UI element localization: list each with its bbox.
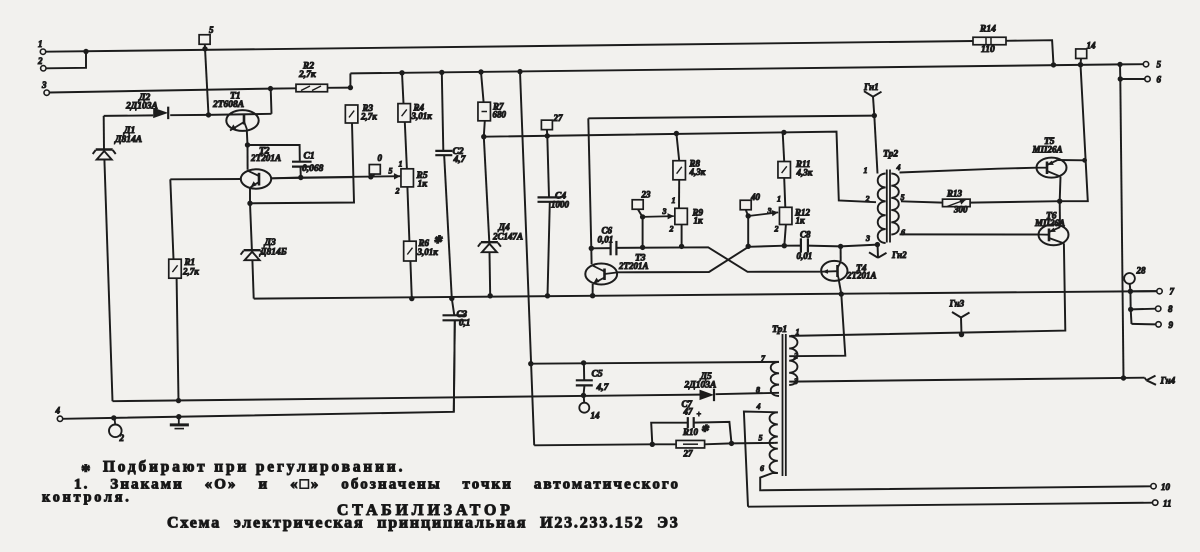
svg-text:47: 47: [683, 407, 694, 417]
wire: [248, 145, 300, 161]
svg-text:1к: 1к: [796, 216, 806, 226]
svg-text:2Д103А: 2Д103А: [684, 381, 717, 391]
node junction: [202, 46, 207, 51]
transistor T2: [241, 169, 271, 188]
wire: [520, 72, 534, 446]
svg-text:2: 2: [37, 56, 43, 66]
wire: [170, 179, 173, 259]
wire: [783, 133, 785, 162]
svg-text:2,7к: 2,7к: [298, 70, 317, 80]
svg-text:Подбирают при регулировании.: Подбирают при регулировании.: [103, 459, 405, 476]
svg-text:C5: C5: [592, 370, 603, 380]
node junction: [176, 398, 181, 403]
zener D1: [96, 148, 113, 150]
node junction: [1118, 76, 1123, 81]
svg-text:4,3к: 4,3к: [796, 168, 813, 178]
svg-text:6: 6: [1157, 75, 1162, 85]
transformer Tr2 winding 4-5-6: [891, 174, 899, 235]
svg-text:1к: 1к: [694, 216, 704, 226]
resistor R7: [478, 102, 491, 121]
wire: [840, 246, 842, 261]
node junction: [872, 113, 877, 118]
resistor R3: [345, 105, 358, 123]
wire: [249, 188, 251, 204]
wire: [873, 97, 874, 116]
resistor R2: [296, 84, 328, 92]
wire: [534, 444, 652, 445]
wire: [839, 281, 841, 294]
transformer Tr1 winding 4-5-6: [770, 412, 778, 473]
node junction: [528, 361, 533, 366]
wire: [104, 160, 112, 402]
svg-text:5: 5: [1157, 60, 1162, 70]
wire: [546, 130, 548, 136]
node junction: [298, 175, 303, 180]
wire: [63, 321, 455, 419]
wire: [643, 215, 674, 218]
wire: [748, 503, 1153, 507]
svg-text:28: 28: [1136, 266, 1147, 276]
transformer Tr1 winding 7-8: [771, 362, 779, 396]
wire: [349, 73, 351, 87]
wire: [328, 87, 351, 89]
wire: [1080, 59, 1083, 65]
svg-text:4: 4: [55, 406, 61, 416]
transistor T4: [821, 261, 847, 281]
capacitor C6: [609, 241, 611, 255]
node 40: [740, 200, 751, 210]
svg-text:4,3к: 4,3к: [689, 167, 706, 177]
transistor T3: [585, 264, 617, 285]
svg-text:2Т201А: 2Т201А: [250, 153, 281, 163]
svg-text:1: 1: [796, 328, 800, 337]
wire: [548, 202, 550, 295]
node junction: [640, 245, 645, 250]
wire: [1129, 284, 1132, 292]
wire: [1129, 291, 1131, 309]
capacitor C1: [292, 161, 312, 163]
wire: [350, 64, 1120, 73]
node 28: [1124, 273, 1135, 284]
wire: [209, 114, 272, 115]
wire: [103, 116, 105, 150]
node junction: [674, 131, 679, 136]
svg-text:Тр2: Тр2: [883, 150, 898, 160]
wire: [254, 291, 1160, 299]
svg-text:0,1: 0,1: [459, 318, 470, 328]
wire: [784, 178, 785, 207]
wire: [746, 210, 748, 216]
wire: [531, 362, 779, 364]
wire: [1119, 64, 1121, 79]
terminal 11: [1153, 500, 1158, 505]
svg-text:Гн1: Гн1: [863, 82, 879, 92]
svg-text:✱: ✱: [701, 424, 710, 434]
svg-text:2Т201А: 2Т201А: [618, 261, 649, 271]
wire: [1006, 40, 1054, 65]
node junction: [1121, 375, 1126, 380]
node junction: [746, 244, 751, 249]
wire: [900, 233, 1039, 235]
capacitor C3: [443, 314, 467, 316]
wire: [760, 473, 1151, 490]
wire: [481, 72, 484, 102]
wire: [588, 116, 874, 119]
svg-text:680: 680: [493, 110, 507, 120]
resistor R11: [778, 162, 791, 178]
svg-text:2: 2: [774, 225, 779, 234]
svg-text:2Т201А: 2Т201А: [846, 271, 877, 281]
capacitor C4: [538, 196, 562, 198]
wire: [405, 122, 407, 169]
wire: [705, 442, 732, 445]
transformer Tr1 core: [782, 334, 784, 476]
node junction: [650, 442, 655, 447]
wire: [271, 177, 301, 180]
node 23: [632, 200, 643, 210]
wire: [960, 318, 963, 335]
wire: [444, 156, 452, 299]
zener D4: [481, 241, 498, 243]
wire: [46, 52, 86, 69]
node junction: [1117, 62, 1122, 67]
svg-text:40: 40: [750, 192, 761, 202]
wire: [716, 393, 780, 394]
terminal 8: [1156, 306, 1161, 311]
svg-text:Гн2: Гн2: [891, 250, 907, 260]
transistor T1: [226, 110, 258, 131]
svg-text:1: 1: [864, 166, 868, 175]
svg-text:0,068: 0,068: [302, 164, 324, 174]
wire: [617, 246, 801, 273]
resistor R14: [973, 37, 1006, 45]
node junction: [1057, 199, 1062, 204]
node junction: [640, 214, 645, 219]
svg-text:0,01: 0,01: [598, 235, 614, 245]
svg-text:300: 300: [953, 205, 968, 215]
svg-text:МП26А: МП26А: [1032, 145, 1063, 155]
svg-text:1. Знаками «О» и «□» обозначен: 1. Знаками «О» и «□» обозначены точки ав…: [74, 477, 680, 493]
svg-text:C1: C1: [304, 152, 315, 162]
wire: [791, 378, 1145, 382]
node junction: [439, 70, 444, 75]
svg-text:2,7к: 2,7к: [182, 267, 199, 277]
transformer Tr2 winding 1-2-3: [878, 174, 886, 244]
node junction: [1128, 289, 1133, 294]
node junction: [399, 70, 404, 75]
wire: [642, 217, 644, 248]
svg-text:4,7: 4,7: [453, 155, 467, 165]
wire: [651, 423, 688, 445]
wire: [874, 116, 877, 174]
terminal 4: [57, 416, 62, 421]
svg-text:2: 2: [865, 195, 870, 204]
terminal 5: [1143, 61, 1148, 66]
wire: [271, 87, 297, 89]
pot R5: [401, 169, 414, 187]
svg-text:Схема электрическая принципиал: Схема электрическая принципиальная И23.2…: [167, 515, 680, 532]
node junction: [679, 244, 684, 249]
node junction: [517, 69, 522, 74]
node junction: [1128, 307, 1133, 312]
wire: [1131, 308, 1156, 311]
svg-text:Гн3: Гн3: [949, 299, 965, 309]
wire: [652, 443, 676, 445]
wire: [484, 132, 876, 203]
node junction: [111, 415, 116, 420]
node junction: [409, 296, 414, 301]
wire: [1120, 78, 1145, 80]
wire: [177, 278, 179, 400]
svg-text:4: 4: [756, 402, 761, 411]
wire: [1059, 201, 1061, 227]
node 5: [199, 35, 210, 45]
node junction: [245, 142, 250, 147]
svg-text:R13: R13: [946, 189, 963, 199]
wire: [616, 247, 820, 271]
svg-text:1: 1: [672, 196, 676, 205]
node junction: [581, 360, 586, 365]
wire: [170, 178, 241, 180]
capacitor C7: [687, 417, 689, 428]
wire: [900, 168, 1037, 173]
svg-text:R14: R14: [979, 25, 996, 35]
resistor R13: [943, 199, 971, 207]
wire: [247, 145, 249, 170]
wire: [590, 248, 592, 264]
wire: [252, 260, 253, 298]
wire: [1058, 159, 1085, 161]
svg-text:6: 6: [901, 228, 905, 237]
wire: [583, 363, 585, 380]
svg-text:контроля.: контроля.: [42, 490, 132, 506]
terminal 9: [1156, 322, 1161, 327]
wire: [747, 216, 749, 246]
svg-text:14: 14: [591, 411, 601, 421]
svg-text:2Т608А: 2Т608А: [212, 100, 244, 110]
node junction: [368, 174, 373, 179]
wire: [1059, 177, 1062, 202]
node junction: [729, 441, 734, 446]
wire: [638, 209, 642, 216]
svg-text:110: 110: [981, 45, 995, 55]
node junction: [1082, 158, 1087, 163]
svg-text:2: 2: [395, 187, 400, 196]
svg-text:✱: ✱: [434, 235, 444, 246]
svg-text:2: 2: [119, 433, 125, 443]
diode D2: [153, 108, 168, 119]
wire: [748, 212, 778, 216]
node junction: [782, 243, 787, 248]
node junction: [838, 244, 843, 249]
node junction: [348, 85, 353, 90]
svg-text:4,7: 4,7: [596, 383, 610, 393]
svg-text:1: 1: [777, 195, 781, 204]
svg-text:3: 3: [865, 234, 870, 243]
svg-text:3: 3: [41, 80, 47, 90]
node junction: [268, 86, 273, 91]
pot R9: [675, 208, 688, 224]
wire: [452, 299, 454, 315]
svg-text:Д3: Д3: [264, 238, 276, 248]
node 2: [114, 418, 117, 425]
node junction: [449, 296, 454, 301]
node 27: [541, 120, 552, 129]
transistor T5: [1037, 158, 1067, 178]
resistor R6: [404, 241, 417, 261]
wire: [1120, 63, 1143, 65]
capacitor C5: [576, 379, 593, 381]
wire: [1120, 79, 1123, 378]
svg-text:3: 3: [662, 207, 667, 216]
resistor R4: [398, 104, 411, 122]
jack Gn3: [952, 312, 961, 318]
transformer Tr2 core: [886, 170, 888, 243]
node junction: [1078, 62, 1083, 67]
jack Gn4: [1145, 378, 1147, 381]
svg-text:4: 4: [896, 163, 901, 172]
svg-text:1000: 1000: [551, 200, 570, 210]
svg-text:2Д103А: 2Д103А: [125, 102, 158, 112]
wire: [46, 41, 973, 52]
wire: [588, 118, 591, 248]
wire: [877, 243, 880, 258]
svg-text:3,01к: 3,01к: [411, 111, 433, 121]
wire: [49, 89, 270, 93]
svg-text:11: 11: [1163, 499, 1172, 509]
svg-text:27: 27: [553, 113, 564, 123]
wire: [678, 180, 680, 209]
wire: [1130, 309, 1133, 324]
wire: [784, 225, 786, 246]
svg-text:7: 7: [1170, 287, 1175, 297]
node junction: [581, 393, 586, 398]
svg-text:5: 5: [759, 434, 763, 443]
wire: [1130, 290, 1156, 292]
wire: [402, 73, 404, 104]
wire: [104, 114, 154, 117]
svg-text:1к: 1к: [418, 180, 429, 190]
terminal 6: [1145, 76, 1150, 81]
terminal 1: [40, 49, 45, 54]
wire: [271, 177, 353, 178]
node 0: [369, 165, 380, 175]
svg-text:10: 10: [1161, 482, 1171, 492]
wire: [489, 252, 492, 296]
svg-text:Д814А: Д814А: [114, 135, 142, 145]
wire: [454, 321, 455, 412]
terminal 3: [44, 90, 49, 95]
wire: [775, 442, 778, 444]
resistor R10: [676, 440, 705, 448]
ground: [178, 417, 180, 424]
wire: [300, 168, 302, 178]
svg-text:2С147А: 2С147А: [492, 232, 523, 242]
transformer Tr1 winding 1-2-3: [789, 336, 797, 385]
node junction: [589, 246, 594, 251]
pot R12: [779, 207, 792, 224]
svg-text:R1: R1: [184, 257, 196, 267]
svg-text:27: 27: [683, 449, 694, 459]
node junction: [839, 291, 844, 296]
node junction: [176, 414, 181, 419]
wire: [789, 294, 845, 356]
svg-text:9: 9: [1169, 320, 1174, 330]
transistor T6: [1039, 224, 1069, 245]
svg-text:23: 23: [641, 190, 652, 200]
wire: [250, 123, 354, 203]
svg-text:2,7к: 2,7к: [360, 112, 377, 122]
svg-text:5: 5: [389, 167, 393, 176]
wire: [113, 395, 700, 402]
svg-text:1: 1: [38, 39, 43, 49]
jack Gn1: [864, 91, 873, 97]
wire: [732, 442, 775, 445]
wire: [246, 130, 249, 145]
wire: [789, 381, 791, 383]
wire: [205, 44, 209, 115]
svg-text:8: 8: [1168, 304, 1173, 314]
wire: [681, 225, 683, 247]
wire: [901, 201, 943, 202]
wire: [583, 395, 586, 402]
wire: [372, 174, 375, 177]
svg-text:3,01к: 3,01к: [417, 247, 439, 257]
wire: [484, 121, 485, 137]
svg-text:14: 14: [1087, 41, 1097, 51]
svg-text:0,01: 0,01: [797, 251, 813, 261]
node 14: [1076, 49, 1087, 59]
wire: [547, 136, 549, 197]
wire: [301, 176, 400, 177]
node junction: [781, 130, 786, 135]
wire: [442, 72, 444, 150]
wire: [407, 187, 409, 241]
capacitor C2: [435, 150, 452, 152]
wire: [744, 412, 778, 507]
node junction: [1051, 62, 1056, 67]
node junction: [478, 69, 483, 74]
node junction: [83, 49, 88, 54]
svg-text:5: 5: [209, 25, 214, 35]
wire: [694, 422, 732, 444]
terminal 2: [41, 66, 46, 71]
wire: [791, 243, 1065, 336]
wire: [789, 335, 791, 337]
node junction: [545, 293, 550, 298]
svg-text:Д814Б: Д814Б: [259, 248, 287, 258]
wire: [1132, 323, 1156, 326]
svg-text:0: 0: [378, 153, 383, 163]
node junction: [590, 293, 595, 298]
node junction: [247, 201, 252, 206]
svg-text:R10: R10: [682, 427, 699, 437]
node junction: [481, 134, 486, 139]
wire: [591, 247, 610, 249]
wire: [170, 114, 208, 116]
wire: [410, 261, 411, 299]
wire: [270, 89, 273, 114]
diode D5: [700, 390, 715, 401]
resistor R1: [169, 259, 182, 278]
node junction: [206, 112, 211, 117]
capacitor C8: [800, 238, 802, 252]
wire: [970, 201, 1060, 202]
wire: [592, 284, 594, 296]
svg-text:Тр1: Тр1: [772, 325, 787, 335]
zener D3: [244, 249, 261, 251]
wire: [1060, 65, 1088, 202]
